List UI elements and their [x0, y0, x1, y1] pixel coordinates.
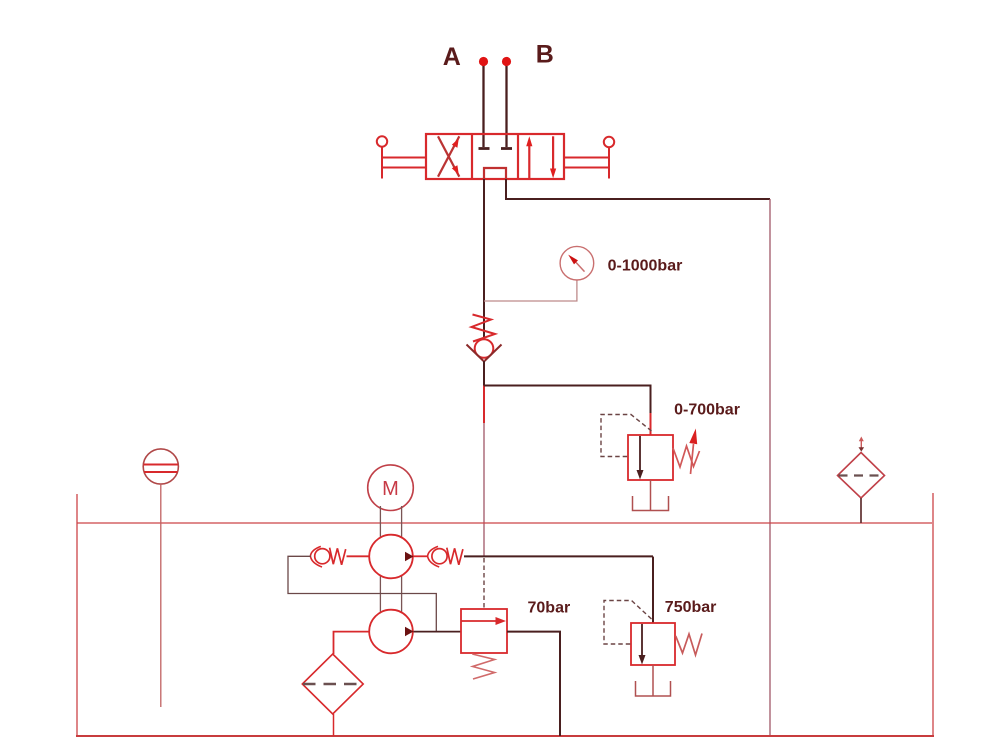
wire main pressure line to pump junction: [483, 423, 485, 556]
tank left wall: [76, 494, 78, 736]
DV1 left position crossed arrow 2: [438, 136, 459, 176]
wire main line CV3 to RV3 drop: [464, 555, 653, 557]
svg-text:0-1000bar: 0-1000bar: [608, 258, 683, 275]
pressure gauge PG1: [560, 246, 594, 280]
relief valve RV1 body: [628, 435, 673, 480]
RV1 drain to tank stem: [650, 480, 652, 511]
breather air arrows: [859, 437, 865, 452]
RV3 pilot line dashed: [604, 601, 652, 645]
check valve CV2 seat arc: [310, 546, 322, 567]
RV1 tank symbol: [633, 496, 669, 511]
suction filter F1: [302, 654, 363, 714]
DV1 center position P-T pocket: [484, 168, 506, 179]
unloading valve RV2 body: [461, 609, 507, 653]
RV2 spring below: [472, 654, 494, 679]
check valve CV1 seat: [467, 345, 502, 362]
svg-text:A: A: [443, 43, 461, 71]
check valve CV3 ball: [432, 549, 447, 564]
DV1 right position up arrow: [526, 136, 532, 178]
wire pump P2 outlet to RV2: [414, 631, 462, 633]
check valve CV2 spring: [330, 548, 346, 565]
wire filter to tank bottom: [333, 714, 335, 736]
wire RV1 inlet: [650, 413, 652, 435]
directional valve DV1 body: [426, 134, 564, 179]
RV2 flow arrow: [461, 617, 506, 625]
svg-text:B: B: [536, 41, 554, 69]
breather stem: [860, 498, 862, 523]
port B node dot: [502, 57, 511, 66]
wire RV3 inlet drop: [652, 557, 654, 623]
pump P2 low stage: [369, 610, 413, 654]
DV1 left position crossed arrow 1: [438, 136, 459, 176]
DV1 right position down arrow: [550, 136, 556, 178]
wire return drop to tank: [769, 199, 771, 736]
tank fluid level line: [77, 522, 932, 524]
filter F1 element dashed: [303, 683, 363, 686]
svg-text:750bar: 750bar: [665, 599, 717, 616]
DV1 left lever actuator: [377, 136, 426, 178]
shaft motor to pump1: [380, 506, 401, 537]
RV3 flow arrow: [639, 624, 646, 665]
breather element dashed: [839, 474, 885, 476]
wire main pressure line mid: [483, 386, 485, 424]
tank bottom: [76, 735, 934, 737]
svg-text:0-700bar: 0-700bar: [674, 402, 740, 419]
port A node dot: [479, 57, 488, 66]
check valve CV2 ball: [315, 549, 330, 564]
wire valve T to right drop: [506, 179, 770, 199]
wire CV2 spring to pump P1 inlet: [347, 555, 370, 557]
level gauge lines: [144, 465, 179, 473]
level gauge stem: [160, 484, 162, 707]
wire below check valve: [483, 361, 485, 386]
wire pump P1 outlet to CV3: [414, 555, 429, 557]
RV3 tank symbol: [636, 681, 671, 696]
pump P1 high stage: [369, 535, 413, 579]
wire pump P2 inlet from filter: [334, 632, 370, 654]
blocked port T-bar A: [479, 147, 490, 150]
breather BR1 diamond: [838, 453, 885, 499]
pump P1 outlet triangle: [405, 552, 414, 561]
shaft pump1 to pump2: [380, 575, 401, 612]
RV1 spring: [673, 446, 700, 467]
check valve CV3 seat arc: [428, 546, 440, 567]
RV1 pilot line dashed: [601, 415, 652, 457]
RV3 spring: [676, 634, 702, 656]
wire branch to relief valve RV1: [484, 386, 651, 414]
tank right wall: [932, 493, 934, 736]
DV1 right lever actuator: [564, 137, 614, 179]
blocked port T-bar B: [501, 147, 512, 150]
wire gauge branch: [484, 280, 577, 301]
RV1 flow arrow: [637, 436, 644, 480]
level gauge LG1: [143, 449, 178, 484]
svg-text:70bar: 70bar: [528, 599, 571, 616]
wire port A to valve: [482, 66, 484, 147]
wire P line valve to gauge junction: [483, 179, 485, 340]
wire CV2 loop left: [288, 556, 436, 631]
check valve CV3 spring: [447, 548, 463, 565]
check valve CV1 ball: [475, 339, 494, 358]
pump P2 outlet triangle: [405, 627, 414, 636]
motor M1: [368, 465, 414, 511]
wire port B to valve: [505, 66, 507, 147]
svg-text:M: M: [382, 478, 399, 500]
wire RV2 outlet to tank: [507, 632, 560, 736]
spring above check valve CV1: [472, 315, 496, 342]
relief valve RV3 body: [631, 623, 675, 665]
RV3 drain stem: [652, 665, 654, 696]
RV2 pilot dashed wire: [483, 558, 485, 608]
RV1 adjustment arrow: [689, 429, 697, 475]
